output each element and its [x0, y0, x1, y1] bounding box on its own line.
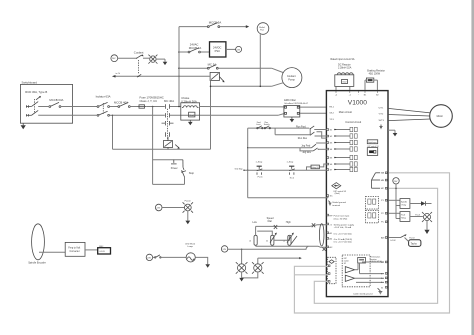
- svg-text:Relief: Relief: [259, 27, 265, 29]
- svg-text:Cable shield ground: Cable shield ground: [353, 292, 373, 295]
- svg-text:Power: Power: [171, 167, 178, 170]
- svg-text:Schaffner FS25938-40-07: Schaffner FS25938-40-07: [284, 102, 309, 105]
- svg-text:0-10V: 0-10V: [390, 240, 396, 242]
- svg-text:S2: S2: [344, 263, 346, 265]
- svg-text:RCD 30A, Type B: RCD 30A, Type B: [25, 90, 47, 94]
- svg-text:MCCB 40A: MCCB 40A: [114, 101, 128, 105]
- svg-text:Motor: Motor: [437, 115, 444, 118]
- svg-text:PC: PC: [381, 222, 384, 224]
- svg-text:40Ω 100W: 40Ω 100W: [369, 72, 381, 75]
- svg-text:W/T3: W/T3: [379, 120, 385, 122]
- svg-text:V1000: V1000: [348, 99, 367, 106]
- svg-text:Spindle Encoder: Spindle Encoder: [28, 261, 46, 264]
- svg-text:Dial: Dial: [268, 220, 273, 223]
- svg-text:EMC Filter: EMC Filter: [284, 99, 296, 102]
- svg-text:Gnd Stop: Gnd Stop: [235, 167, 243, 170]
- svg-text:Rated input current 9A: Rated input current 9A: [331, 58, 355, 61]
- svg-text:Run Rev: Run Rev: [298, 137, 308, 140]
- svg-text:Isolator 63A: Isolator 63A: [96, 95, 111, 99]
- svg-text:Push: Push: [258, 176, 264, 178]
- svg-text:High: High: [286, 221, 292, 224]
- svg-text:0 to +10 V (20 kΩ): 0 to +10 V (20 kΩ): [334, 241, 352, 244]
- svg-text:2.28mH 32A: 2.28mH 32A: [338, 67, 352, 70]
- svg-text:Converter: Converter: [70, 250, 80, 253]
- svg-text:Relay: Relay: [402, 205, 407, 207]
- svg-text:Fault: Fault: [401, 214, 405, 217]
- svg-text:Main circuit: Main circuit: [339, 110, 352, 114]
- svg-text:S/L2: S/L2: [329, 113, 334, 115]
- svg-text:R/L1: R/L1: [329, 106, 334, 108]
- svg-text:Limit: Limit: [256, 123, 261, 126]
- svg-text:24VDC: 24VDC: [213, 46, 221, 50]
- svg-text:Delay Off: Delay Off: [312, 167, 320, 169]
- svg-text:(Sink): (Sink): [335, 193, 341, 195]
- svg-text:Digital oper.: Digital oper.: [368, 141, 377, 144]
- svg-text:Pump: Pump: [288, 78, 295, 81]
- svg-text:Stop: Stop: [189, 172, 195, 175]
- svg-text:2k: 2k: [283, 241, 285, 243]
- svg-text:terminal: terminal: [332, 204, 340, 207]
- svg-text:Low: Low: [252, 221, 257, 224]
- svg-text:SC: SC: [330, 195, 333, 197]
- svg-text:Lamp: Lamp: [187, 246, 193, 248]
- svg-text:Setting power supply: Setting power supply: [334, 224, 355, 227]
- svg-text:Jog Fwd: Jog Fwd: [301, 145, 311, 148]
- svg-text:Switchboard: Switchboard: [22, 81, 38, 85]
- svg-text:Spindle: Spindle: [401, 202, 407, 204]
- svg-text:Tacho: Tacho: [411, 243, 418, 245]
- svg-text:AC: AC: [329, 246, 332, 249]
- svg-text:MB: MB: [381, 180, 385, 182]
- svg-text:2k: 2k: [266, 241, 268, 243]
- svg-text:Power: Power: [185, 200, 191, 203]
- svg-text:MC 3A: MC 3A: [208, 63, 217, 67]
- svg-text:e-Stop: e-Stop: [287, 160, 294, 163]
- svg-text:Class J, T, CC: Class J, T, CC: [140, 99, 158, 103]
- svg-text:to Ch: to Ch: [116, 72, 121, 75]
- svg-text:+10.5 Vdc, 20 mA: +10.5 Vdc, 20 mA: [334, 226, 352, 229]
- svg-text:Pulse train input: Pulse train input: [334, 215, 350, 218]
- svg-text:(max. 32 kHz): (max. 32 kHz): [334, 218, 348, 220]
- svg-text:MC 40A: MC 40A: [164, 99, 174, 103]
- svg-text:Freq to Volt: Freq to Volt: [68, 247, 80, 250]
- svg-text:0 to +10 V (20 kΩ): 0 to +10 V (20 kΩ): [334, 232, 352, 235]
- svg-text:Relay: Relay: [401, 218, 406, 220]
- svg-text:Panel: Panel: [409, 237, 415, 239]
- svg-text:Fault: Fault: [415, 213, 420, 216]
- svg-text:Jog Rev: Jog Rev: [302, 151, 312, 154]
- svg-text:Shield ground: Shield ground: [332, 201, 346, 204]
- svg-text:V/T2: V/T2: [379, 114, 384, 116]
- svg-text:LED Work: LED Work: [185, 243, 196, 246]
- svg-text:MCCB 63A: MCCB 63A: [49, 98, 63, 102]
- svg-text:MC: MC: [381, 188, 385, 190]
- svg-text:MA: MA: [381, 172, 385, 175]
- svg-text:Coolant: Coolant: [134, 51, 144, 55]
- svg-text:4 to 20 mA (250 Ω): 4 to 20 mA (250 Ω): [334, 238, 353, 241]
- svg-text:AM: AM: [381, 236, 384, 239]
- svg-text:0-10V: 0-10V: [100, 251, 106, 253]
- svg-text:T/L3: T/L3: [329, 119, 334, 121]
- svg-text:PSU: PSU: [215, 49, 220, 53]
- svg-text:Run Fwd: Run Fwd: [296, 126, 306, 129]
- svg-text:Control circuit: Control circuit: [345, 120, 361, 124]
- svg-text:RP: RP: [329, 215, 333, 217]
- svg-text:2k: 2k: [249, 241, 251, 243]
- svg-text:e-Stop: e-Stop: [256, 160, 263, 163]
- svg-text:U/T1: U/T1: [379, 108, 385, 110]
